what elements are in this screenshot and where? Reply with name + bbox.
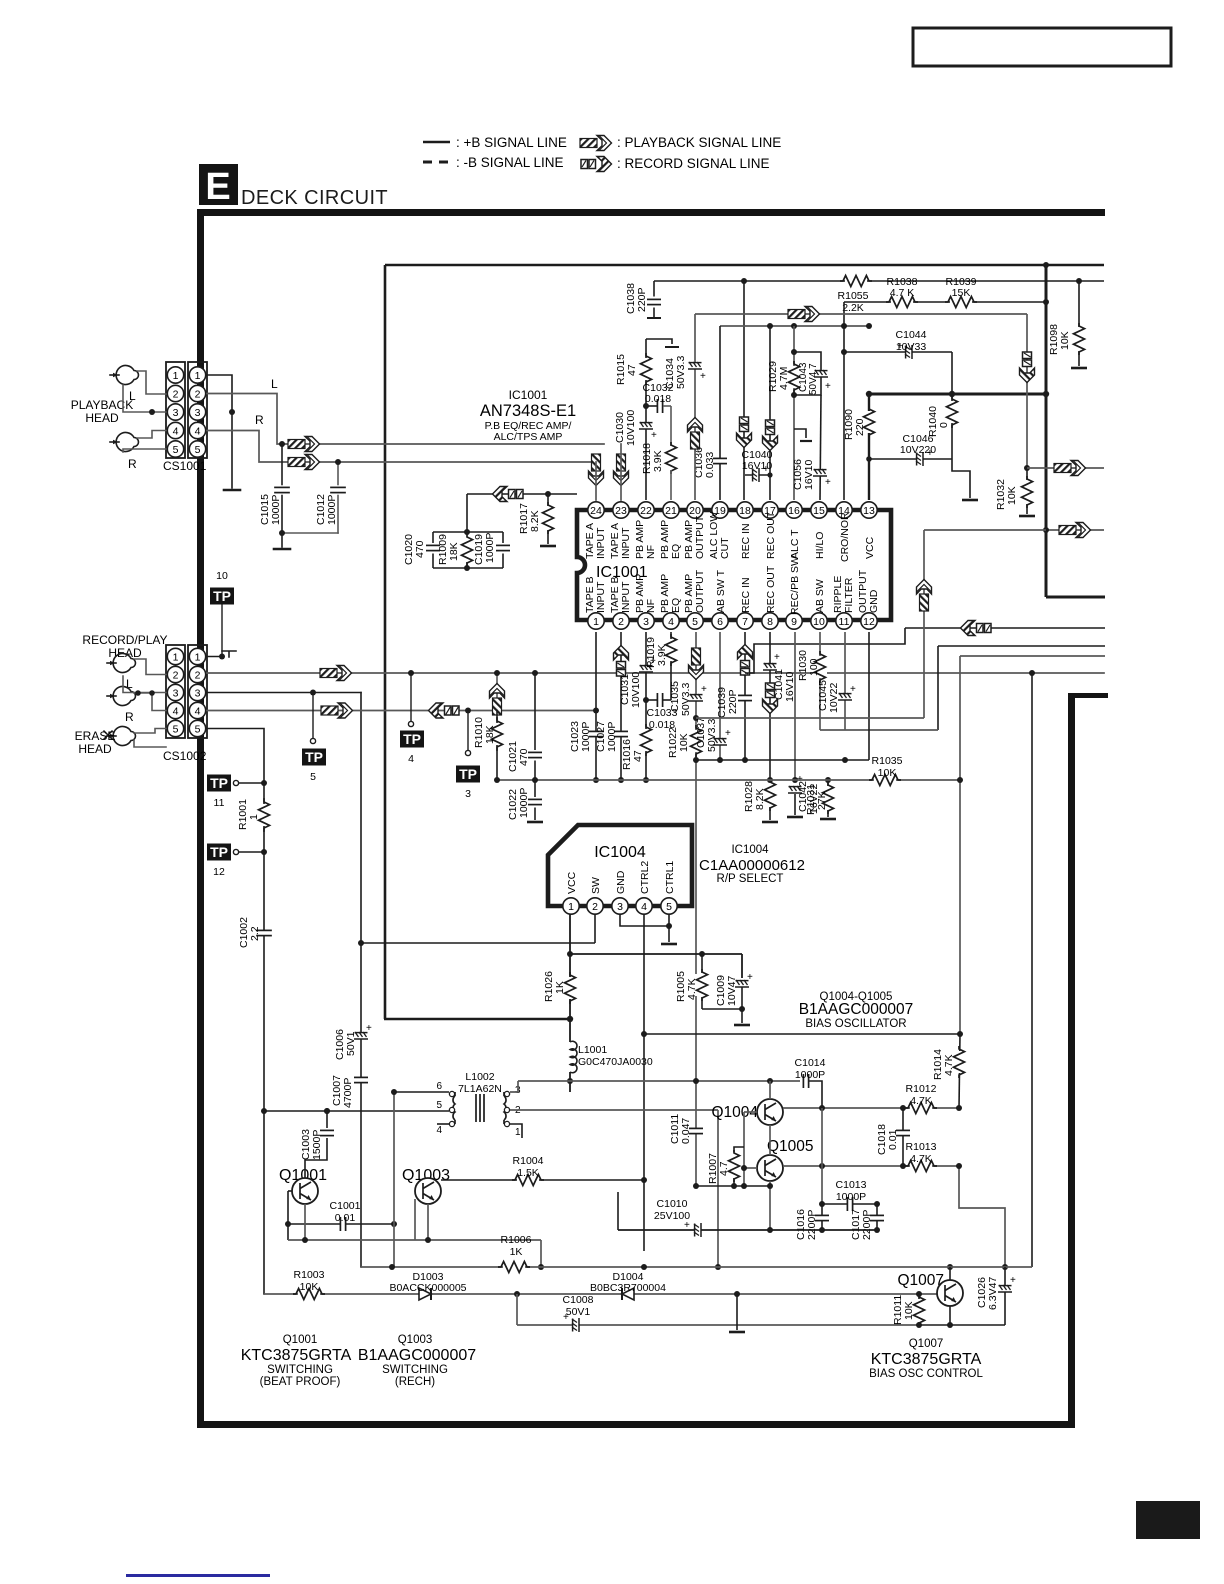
svg-text:Q1007: Q1007 [909, 1338, 944, 1350]
svg-text:4.7M: 4.7M [778, 367, 790, 390]
svg-text:8.2K: 8.2K [529, 510, 541, 532]
wire L line [207, 394, 604, 445]
head to connector wires [123, 371, 166, 452]
svg-text:10K: 10K [300, 1281, 319, 1293]
svg-text:27K: 27K [816, 791, 828, 810]
capacitor C1033 0.018 [663, 699, 671, 701]
resistor R1028 8.2K [763, 779, 777, 811]
capacitor C1042 16V22 [788, 786, 802, 793]
connector CS1001 [166, 362, 185, 458]
capacitor C1001 0.01 [288, 1223, 394, 1225]
svg-text:R1003: R1003 [294, 1269, 325, 1281]
svg-text:VCC: VCC [566, 871, 578, 894]
thick wire vertical x1046 [1045, 264, 1048, 597]
wire transformer pin6 line [394, 1091, 449, 1093]
svg-text:GND: GND [615, 870, 627, 894]
wire y730 [820, 729, 938, 731]
svg-text:HEAD: HEAD [108, 646, 142, 660]
resistor R1019 3.9K [664, 634, 678, 666]
svg-text:R: R [128, 457, 137, 471]
svg-text:+: + [850, 684, 856, 695]
wire pin22 column [645, 339, 647, 500]
connector CS1002 [166, 645, 185, 738]
wire y1325 [919, 1324, 1005, 1326]
playback arrow on R line [288, 455, 320, 470]
svg-text:1000P: 1000P [795, 1069, 825, 1081]
wire record branch down [466, 494, 468, 532]
svg-text:4700P: 4700P [342, 1078, 354, 1108]
svg-text:4: 4 [195, 706, 201, 718]
svg-text:E: E [205, 166, 230, 208]
capacitor C1022 1000P [534, 780, 536, 797]
svg-text:8: 8 [767, 616, 773, 628]
svg-text:3.9K: 3.9K [656, 644, 668, 666]
svg-text:: -B SIGNAL LINE: : -B SIGNAL LINE [456, 155, 564, 170]
svg-text:CTRL1: CTRL1 [664, 861, 676, 894]
svg-text:SW: SW [590, 877, 602, 894]
resistor R1007 4.7 [734, 1147, 744, 1152]
capacitor C1010 25V100 [618, 1229, 877, 1231]
wire x1027 drop [1026, 314, 1028, 468]
svg-text:4.7K: 4.7K [910, 1153, 932, 1165]
record/play head R [107, 687, 136, 706]
resistor R1029 4.7M on pin16 column [793, 326, 795, 500]
svg-text:(BEAT PROOF): (BEAT PROOF) [260, 1376, 341, 1388]
svg-text:3: 3 [195, 688, 201, 700]
svg-text:RECORD/PLAY: RECORD/PLAY [82, 633, 167, 647]
wire record/play line from CS1002 pin4 [207, 710, 596, 712]
svg-text:1: 1 [195, 370, 201, 382]
svg-text:10: 10 [813, 616, 825, 628]
playback arrow [320, 666, 352, 681]
IC1004 pins 1-5 [563, 898, 579, 914]
svg-text:AB SW T: AB SW T [715, 569, 727, 613]
svg-text:SWITCHING: SWITCHING [382, 1364, 448, 1376]
resistor R1055 2.2K [840, 274, 872, 288]
wire pin17 column [769, 326, 771, 500]
wire playback exit y530 [1046, 529, 1104, 531]
wire junctions on R1006 rail [715, 1264, 721, 1270]
resistor R1016 47 [639, 724, 653, 756]
test point TP5 [310, 690, 316, 696]
svg-text:B0ACCK000005: B0ACCK000005 [389, 1282, 466, 1294]
svg-text:1: 1 [195, 652, 201, 664]
diode D1003 [419, 1288, 431, 1300]
ground [224, 489, 240, 491]
resistor R1014 4.7K [959, 1034, 960, 1108]
wire pin20 column [694, 314, 696, 500]
wire y760 rail [696, 759, 869, 761]
wire y656 exit [960, 655, 1105, 657]
svg-text:CS1001: CS1001 [163, 459, 207, 473]
capacitor C1039 220P [738, 695, 752, 700]
svg-text:16V10: 16V10 [803, 459, 815, 490]
svg-text:50V1: 50V1 [345, 1031, 357, 1056]
wire pin5 column [695, 632, 697, 1186]
capacitor C1037 50V3.3 [713, 738, 727, 745]
svg-text:ALC/TPS AMP: ALC/TPS AMP [494, 431, 563, 443]
record/play head L [107, 654, 136, 673]
playback arrow down pin5 col [689, 648, 704, 680]
svg-text:10V22: 10V22 [828, 682, 840, 713]
svg-text:5: 5 [195, 444, 201, 456]
diode D1004 [622, 1288, 634, 1300]
svg-text:1000P: 1000P [836, 1191, 866, 1203]
wire pin8 column [769, 632, 771, 780]
svg-text:INPUT: INPUT [595, 581, 607, 613]
svg-text:FILTER: FILTER [843, 577, 855, 613]
record arrow into pin18 [737, 417, 752, 448]
resistor R1022 10K [689, 725, 703, 757]
wire y1034 [644, 1033, 960, 1035]
svg-text:+: + [825, 381, 831, 392]
svg-text:INPUT: INPUT [620, 527, 632, 559]
svg-text:10K: 10K [903, 1301, 915, 1320]
wire CS1002 pin3 line [207, 692, 361, 694]
capacitor C1056 16V10 [813, 469, 827, 476]
svg-text:5: 5 [666, 901, 672, 913]
svg-text:REC IN: REC IN [740, 577, 752, 613]
svg-text:R1013: R1013 [906, 1141, 937, 1153]
capacitor C1036 0.033 [713, 458, 727, 463]
svg-text:10V47: 10V47 [726, 975, 738, 1006]
test point TP3 [465, 708, 471, 714]
svg-text:L: L [271, 377, 278, 391]
capacitor C1045 10V22 [838, 693, 852, 700]
svg-text:EQ: EQ [670, 544, 682, 559]
capacitor C1043 50V4.7 loop [794, 352, 821, 395]
svg-text:2: 2 [592, 901, 598, 913]
stub with bar off pin16 [794, 429, 806, 438]
wire elbow pin7 to y644 [745, 628, 905, 673]
wire pin1 column x570 [569, 914, 571, 1042]
svg-text:R/P SELECT: R/P SELECT [717, 873, 784, 885]
capacitor C1023 1000P [589, 731, 603, 736]
svg-text:1000P: 1000P [326, 495, 338, 525]
record line exit right [905, 627, 1105, 629]
thick stub at right box top corner [1068, 693, 1108, 698]
thick right border bar of bottom box [1068, 693, 1075, 1428]
svg-text:CRO/NOR: CRO/NOR [839, 512, 851, 562]
svg-text:R1004: R1004 [513, 1155, 544, 1167]
svg-text:2: 2 [195, 389, 201, 401]
svg-text:: +B SIGNAL LINE: : +B SIGNAL LINE [456, 135, 567, 150]
svg-text:+: + [701, 684, 707, 695]
node pin18 feed [741, 278, 747, 284]
wire inner left edge bottom turn [384, 1018, 570, 1021]
svg-text:50V3.3: 50V3.3 [680, 683, 692, 716]
svg-text:470: 470 [518, 748, 530, 766]
svg-text:AB SW: AB SW [814, 579, 826, 613]
head to CS1002 wires [123, 659, 166, 747]
svg-text:6: 6 [717, 616, 723, 628]
svg-text:+: + [1010, 1275, 1016, 1286]
svg-text:4.7: 4.7 [718, 1161, 730, 1176]
svg-text:CTRL2: CTRL2 [639, 861, 651, 894]
resistor R1038 4.7K [886, 295, 918, 309]
resistor R1032 10K [1024, 465, 1030, 471]
svg-text:R1012: R1012 [906, 1083, 937, 1095]
svg-text:22: 22 [640, 505, 652, 517]
wire R1038 R1039 line y302 [844, 301, 1046, 303]
svg-text:13: 13 [863, 505, 875, 517]
svg-text:3: 3 [465, 788, 471, 800]
svg-text:10K: 10K [1059, 331, 1071, 350]
svg-text:R1006: R1006 [501, 1234, 532, 1246]
wire y954 branch [570, 953, 742, 955]
svg-text:3.9K: 3.9K [652, 450, 664, 472]
svg-text:4.7K: 4.7K [910, 1095, 932, 1107]
record line into IC left [467, 493, 577, 495]
svg-text:+: + [684, 1220, 690, 1231]
record arrow down pin8 [763, 683, 778, 714]
svg-text:B1AAGC000007: B1AAGC000007 [799, 1001, 914, 1018]
capacitor C1011 0.047 [689, 1128, 703, 1133]
IC U1004 body [548, 825, 692, 906]
svg-text:1000P: 1000P [606, 722, 618, 752]
resistor R1017 8.2K [545, 491, 551, 497]
wire vertical x361 [360, 693, 362, 1268]
capacitor C1021 470 [532, 670, 538, 676]
svg-text:4.7K: 4.7K [943, 1054, 955, 1076]
svg-text:2: 2 [195, 670, 201, 682]
svg-text:15: 15 [813, 505, 825, 517]
bottom-right black box [1136, 1501, 1200, 1539]
svg-text:11: 11 [839, 616, 850, 628]
svg-text:5: 5 [692, 616, 698, 628]
playback head L [110, 366, 139, 385]
legend +B signal line [423, 141, 450, 144]
svg-text:1K: 1K [510, 1246, 523, 1258]
svg-text:PLAYBACK: PLAYBACK [71, 398, 133, 412]
wire pin12 column [868, 632, 870, 760]
capacitor C1034 50V3.3 [688, 362, 702, 369]
wire pin4 column [670, 632, 672, 700]
svg-text:1000P: 1000P [484, 533, 496, 563]
svg-text:4: 4 [436, 1125, 442, 1136]
svg-text:0.047: 0.047 [680, 1118, 692, 1144]
wire cap commons [282, 532, 338, 534]
resistor R1039 15K [945, 295, 977, 309]
svg-text:ALC T: ALC T [789, 529, 801, 559]
capacitor C1002 2.2 [257, 930, 271, 935]
svg-text:VCC: VCC [864, 536, 876, 559]
wire R line [207, 431, 596, 463]
wire playback line y314 [695, 313, 1027, 315]
wire pin2 to y943 [594, 914, 596, 943]
wire pin4 column x644 [643, 914, 645, 1251]
svg-text:GND: GND [868, 589, 880, 613]
common bottom [433, 567, 503, 569]
svg-text:1.5K: 1.5K [517, 1167, 539, 1179]
resistor R1011 10K [916, 1291, 922, 1297]
capacitor C1009 10V47 [741, 954, 743, 978]
svg-text:INPUT: INPUT [595, 527, 607, 559]
svg-text:50V4.7: 50V4.7 [808, 363, 819, 395]
svg-text:OUTPUT: OUTPUT [694, 569, 706, 613]
record arrow down pin17 [763, 420, 778, 451]
Q1005 emitter down [769, 1181, 771, 1230]
C1003 1500P [324, 1108, 330, 1114]
svg-text:5: 5 [173, 724, 179, 736]
ground stub after D1004 [734, 1291, 740, 1297]
svg-text:3: 3 [617, 901, 623, 913]
svg-text:AN7348S-E1: AN7348S-E1 [480, 402, 576, 420]
playback arrow on L line [288, 437, 320, 452]
svg-text:OUTPUT: OUTPUT [694, 515, 706, 559]
svg-text:1500P: 1500P [311, 1130, 323, 1160]
svg-text:+: + [563, 1312, 569, 1323]
wire pin13 column [868, 394, 870, 500]
svg-text:C1008: C1008 [563, 1294, 594, 1306]
wire y530 extension [924, 529, 1046, 531]
resistor R1015 47 [639, 353, 653, 385]
wire y718 [696, 717, 924, 719]
svg-text:BIAS OSC CONTROL: BIAS OSC CONTROL [869, 1368, 983, 1380]
svg-text:KTC3875GRTA: KTC3875GRTA [871, 1351, 982, 1368]
svg-text:NF: NF [645, 545, 657, 559]
capacitor C1008 50V1 [516, 1294, 518, 1325]
wire pin1 stub [510, 1124, 522, 1138]
svg-text:1K: 1K [554, 981, 566, 994]
test point TP4 [408, 670, 414, 676]
resistor R1040 0 [951, 394, 953, 459]
capacitor C1041 16V10 [763, 663, 777, 670]
svg-text:1: 1 [248, 814, 260, 820]
svg-text:+: + [725, 728, 731, 739]
erase head [107, 727, 136, 746]
svg-text:3: 3 [643, 616, 649, 628]
test point TP12 [207, 844, 231, 861]
svg-text:+: + [651, 430, 657, 441]
svg-text:IC1004: IC1004 [731, 844, 769, 856]
resistor R1026 1K [563, 972, 577, 1004]
svg-text:4: 4 [641, 901, 647, 913]
svg-text:5: 5 [436, 1100, 442, 1111]
wire playback line from CS1002 pin2 [207, 672, 1104, 674]
svg-text:4.7 K: 4.7 K [890, 287, 915, 299]
thick top border bar [197, 209, 1105, 216]
capacitor C1013 1000P [822, 1203, 877, 1205]
svg-text:IC1004: IC1004 [594, 844, 646, 861]
wire y646 exit [938, 645, 1105, 647]
svg-text:KTC3875GRTA: KTC3875GRTA [241, 1347, 352, 1364]
Q1001 base wire [288, 1190, 292, 1192]
svg-text:15K: 15K [952, 287, 971, 299]
inner top box left edge [384, 265, 387, 1019]
capacitor C1046 10V220 [869, 458, 952, 460]
svg-text:HEAD: HEAD [78, 742, 112, 756]
svg-text:0: 0 [938, 422, 950, 428]
svg-text:: RECORD SIGNAL LINE: : RECORD SIGNAL LINE [617, 156, 770, 171]
svg-text:+: + [897, 340, 903, 352]
svg-text:: PLAYBACK SIGNAL LINE: : PLAYBACK SIGNAL LINE [617, 135, 781, 150]
wire x394 column [393, 1092, 395, 1267]
wire y1081 gray rail [518, 1080, 800, 1082]
capacitor C1040 16V10 [745, 474, 770, 476]
svg-text:18K: 18K [484, 725, 496, 744]
capacitor C1035 50V3.3 [689, 694, 703, 701]
svg-text:4: 4 [668, 616, 674, 628]
R1015 top hook [646, 339, 672, 344]
svg-text:23: 23 [615, 505, 627, 517]
svg-text:12: 12 [863, 616, 875, 628]
wire y780 long rail [497, 779, 960, 781]
svg-text:+: + [774, 652, 780, 663]
wire pin3 column [645, 632, 647, 780]
svg-text:NF: NF [645, 599, 657, 613]
resistor R1035 10K [869, 773, 901, 787]
node C1032 junction [643, 403, 649, 409]
wire L line drop to pin 23 [620, 444, 622, 500]
svg-text:3: 3 [173, 407, 179, 419]
svg-text:9: 9 [791, 616, 797, 628]
svg-text:B1AAGC000007: B1AAGC000007 [358, 1347, 476, 1364]
wire y326 [720, 325, 869, 327]
capacitor C1020 470 [432, 532, 434, 543]
svg-text:IC1001: IC1001 [509, 388, 548, 402]
top pins 24..13 [588, 502, 877, 518]
svg-text:REC OUT: REC OUT [765, 511, 777, 559]
resistor R1010 18K [494, 708, 500, 714]
svg-text:R1055: R1055 [838, 290, 869, 302]
svg-text:2: 2 [618, 616, 624, 628]
svg-text:10: 10 [216, 570, 228, 582]
wire pin9 column [794, 632, 796, 780]
wire pin1 column [595, 632, 597, 780]
svg-text:R: R [255, 413, 264, 427]
svg-text:2: 2 [173, 389, 179, 401]
svg-text:2: 2 [173, 670, 179, 682]
wire y1186 [696, 1185, 770, 1187]
svg-text:10K: 10K [1006, 486, 1018, 505]
wire pin18 column [743, 281, 745, 500]
resistor R1005 4.7K [701, 954, 703, 973]
resistor R1031 27K [825, 777, 831, 783]
wire pin11 column [844, 632, 846, 730]
capacitor C1027 1000P [614, 731, 628, 736]
svg-text:+: + [700, 371, 706, 382]
wire R1013 line y1166 [783, 1165, 959, 1167]
svg-text:BIAS OSCILLATOR: BIAS OSCILLATOR [805, 1018, 906, 1030]
ground [281, 533, 283, 547]
svg-text:Q1003: Q1003 [398, 1334, 433, 1346]
playback head R [110, 433, 139, 452]
svg-text:10K: 10K [878, 767, 897, 779]
svg-text:L1001: L1001 [578, 1044, 607, 1056]
svg-text:20: 20 [689, 505, 701, 517]
wire CS1001 pin1 to ground [207, 375, 232, 488]
capacitor C1044 10V33 [844, 351, 952, 353]
capacitor C1018 0.01 [902, 1108, 904, 1166]
svg-text:4.7K: 4.7K [686, 978, 698, 1000]
wire playback exit y468 [1027, 467, 1104, 469]
legend playback arrow [580, 136, 612, 151]
thick bottom border bar [197, 1421, 1075, 1428]
svg-text:C1001: C1001 [330, 1200, 361, 1212]
svg-text:1: 1 [173, 652, 179, 664]
thick bus y394 [869, 393, 1046, 396]
wire pin14 column + C1044 drop [843, 302, 845, 500]
test point TP11 [207, 775, 231, 792]
svg-text:(RECH): (RECH) [395, 1376, 435, 1388]
thick left border bar [197, 209, 204, 1428]
wire pin3 to x570 [510, 1081, 518, 1092]
svg-text:1: 1 [568, 901, 574, 913]
svg-text:CS1002: CS1002 [163, 749, 207, 763]
wire pin15 column [820, 395, 821, 500]
svg-text:47: 47 [632, 750, 644, 762]
